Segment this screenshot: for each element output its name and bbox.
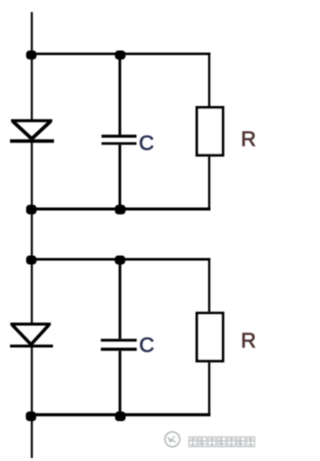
svg-text:C: C xyxy=(139,334,154,357)
svg-text:C: C xyxy=(139,132,154,155)
svg-text:R: R xyxy=(241,128,256,151)
svg-text:R: R xyxy=(241,330,256,353)
